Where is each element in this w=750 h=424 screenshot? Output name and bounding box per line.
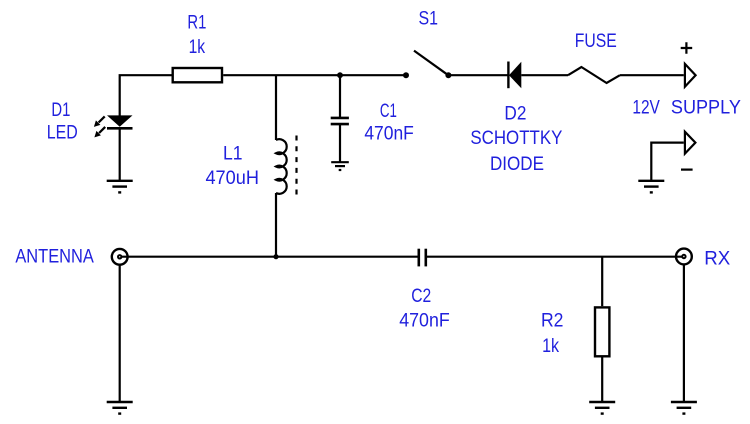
ANTENNA coax connector [112, 249, 128, 265]
LED D1 light arrow 2 [94, 126, 106, 137]
svg-text:C2: C2 [411, 285, 431, 307]
wire antenna connector to ground [119, 265, 121, 402]
wire L1 bottom [275, 193, 277, 257]
svg-text:S1: S1 [419, 8, 439, 30]
svg-text:FUSE: FUSE [575, 30, 617, 52]
switch S1 lever [414, 51, 448, 76]
LED D1 triangle [107, 115, 133, 126]
wire top-left corner: LED branch to R1 [120, 75, 172, 115]
resistor R2 body [595, 307, 609, 356]
svg-text:LED: LED [47, 121, 78, 143]
ground (supply minus) [638, 181, 664, 193]
svg-text:R1: R1 [187, 12, 206, 34]
diode D2 cathode bar [507, 62, 509, 89]
switch S1 left contact dot [403, 72, 409, 78]
bottom wire antenna to C2 [120, 256, 419, 258]
svg-text:470nF: 470nF [364, 123, 414, 145]
svg-text:L1: L1 [223, 143, 243, 165]
svg-text:C1: C1 [380, 100, 397, 122]
wire C1 to ground [339, 124, 341, 162]
capacitor C1 plate top [331, 117, 349, 120]
svg-text:SCHOTTKY: SCHOTTKY [470, 127, 562, 149]
ground (LED D1) [107, 181, 133, 193]
ground (R2) [589, 402, 615, 414]
svg-text:D1: D1 [51, 99, 70, 121]
junction dot C1 top [337, 72, 343, 78]
ground (antenna) [107, 402, 133, 414]
LED D1 light arrow 1 [94, 116, 106, 127]
wire C1 top [339, 75, 341, 118]
minus sign [681, 169, 693, 171]
resistor R1 body [173, 68, 222, 82]
junction dot L1 bottom [273, 254, 278, 259]
svg-text:R2: R2 [541, 310, 564, 332]
ground (C1, small) [331, 162, 349, 170]
svg-text:D2: D2 [504, 103, 526, 125]
wire L1 top [275, 75, 277, 140]
supply minus wire [651, 143, 684, 181]
L1 core dashed line [295, 136, 297, 198]
diode D2 triangle [509, 62, 521, 88]
fuse zigzag FUSE [568, 67, 620, 83]
svg-text:470uH: 470uH [205, 167, 259, 189]
svg-text:SUPPLY: SUPPLY [671, 97, 741, 119]
capacitor C2 plate right [424, 249, 427, 267]
wire D2 to fuse [521, 74, 568, 76]
RX coax connector [676, 249, 692, 265]
svg-text:1k: 1k [189, 36, 206, 58]
supply minus connector triangle [685, 132, 696, 154]
svg-text:ANTENNA: ANTENNA [15, 246, 94, 268]
svg-text:DIODE: DIODE [490, 153, 544, 175]
svg-text:RX: RX [704, 248, 730, 270]
svg-text:12V: 12V [632, 97, 660, 119]
svg-text:470nF: 470nF [399, 310, 450, 332]
wire S1 right contact to D2 [448, 74, 507, 76]
plus sign [681, 42, 693, 54]
LED D1 cathode bar [107, 127, 133, 130]
wire R1 right to S1 left contact [223, 74, 404, 76]
wire R2 top [601, 257, 603, 307]
svg-text:1k: 1k [542, 335, 559, 357]
supply plus connector triangle [685, 64, 696, 87]
wire RX connector to ground [683, 265, 685, 403]
bottom wire C2 to RX [426, 256, 684, 258]
switch S1 right contact dot [445, 72, 451, 78]
capacitor C1 plate bottom [331, 123, 349, 126]
capacitor C2 plate left [417, 249, 420, 267]
wire fuse to supply plus connector [620, 74, 684, 76]
wire R2 bottom to ground [601, 358, 603, 403]
wire LED to ground [119, 130, 121, 181]
ground (RX) [671, 402, 697, 414]
inductor L1 coil [276, 139, 287, 194]
